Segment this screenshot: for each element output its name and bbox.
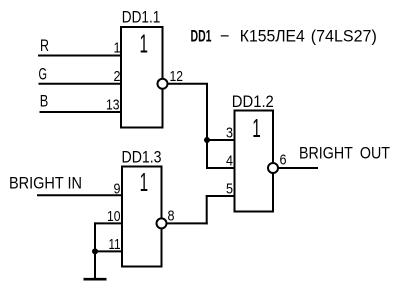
svg-text:BRIGHT OUT: BRIGHT OUT — [299, 144, 390, 163]
wire into pin 4 — [206, 167, 236, 169]
svg-text:B: B — [40, 92, 49, 111]
wire into pin 11 — [94, 250, 123, 252]
inverter bubble DD1.1 output — [158, 79, 168, 89]
svg-text:К155ЛЕ4: К155ЛЕ4 — [240, 26, 305, 45]
svg-text:DD1.3: DD1.3 — [122, 147, 162, 166]
svg-text:R: R — [40, 36, 49, 55]
svg-text:9: 9 — [114, 181, 121, 198]
svg-text:DD1.1: DD1.1 — [122, 8, 161, 27]
svg-text:13: 13 — [106, 97, 120, 114]
svg-text:DD1: DD1 — [191, 26, 212, 45]
svg-text:3: 3 — [226, 125, 233, 142]
svg-text:2: 2 — [114, 68, 121, 85]
svg-text:5: 5 — [226, 181, 233, 198]
wire vertical from pin12 down to pin 4 — [206, 84, 208, 169]
gate DD1.1 (3-input NOR, IEC "1" block) body — [121, 27, 163, 128]
wire into pin 10 — [94, 222, 123, 224]
wire B input — [40, 111, 123, 113]
wire into pin 3 — [206, 139, 236, 141]
ground symbol — [84, 278, 107, 281]
wire DD1.3 output pin 8 horizontal — [167, 222, 208, 224]
wire vertical ground chain — [94, 222, 96, 279]
wire BRIGHT OUT pin 6 — [278, 167, 318, 169]
svg-text:1: 1 — [139, 29, 148, 59]
svg-text:10: 10 — [107, 208, 121, 225]
svg-text:8: 8 — [168, 208, 175, 225]
wire DD1.1 output pin 12 horizontal — [168, 83, 209, 85]
title text DD1 - K155LE4 (74LS27) — [191, 26, 377, 45]
svg-text:(74LS27): (74LS27) — [311, 26, 377, 45]
inverter bubble DD1.3 output — [157, 218, 167, 228]
wire R input — [38, 55, 122, 57]
gate DD1.2 body — [235, 111, 274, 212]
wire G input — [39, 83, 123, 85]
svg-text:1: 1 — [252, 113, 261, 143]
svg-text:G: G — [39, 65, 48, 84]
svg-text:4: 4 — [226, 153, 233, 170]
svg-text:−: − — [220, 26, 230, 45]
svg-text:6: 6 — [280, 152, 287, 169]
svg-text:11: 11 — [109, 236, 121, 253]
wire BRIGHT IN input pin 9 — [37, 194, 123, 196]
svg-text:1: 1 — [114, 40, 121, 57]
svg-text:1: 1 — [140, 167, 149, 197]
junction node at pin 11 tap — [92, 248, 98, 254]
inverter bubble DD1.2 output — [268, 163, 278, 173]
wire into pin 5 — [206, 195, 236, 197]
wire vertical from pin 8 up to pin 5 — [206, 195, 208, 224]
svg-text:DD1.2: DD1.2 — [232, 92, 274, 111]
gate DD1.3 body — [122, 167, 162, 267]
svg-text:12: 12 — [170, 68, 184, 85]
junction node at pin 3 tap — [204, 137, 210, 143]
svg-text:BRIGHT IN: BRIGHT IN — [9, 173, 82, 192]
